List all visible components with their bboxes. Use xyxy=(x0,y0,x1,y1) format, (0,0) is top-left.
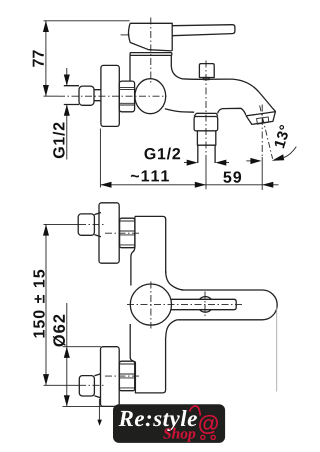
diverter axis (dash-dot) xyxy=(205,61,207,161)
dim line 062 xyxy=(66,303,68,406)
ext line top of handle xyxy=(44,20,130,22)
arrow 150 top xyxy=(43,224,49,235)
top union axis tap side (dash-dot) xyxy=(105,232,139,234)
body to spout outline xyxy=(171,55,275,111)
arrow 062 bottom xyxy=(64,395,70,406)
projection line spout end xyxy=(276,308,278,392)
spout end face xyxy=(246,112,276,116)
ext line 59 right xyxy=(261,105,263,158)
junction curve lower xyxy=(166,320,177,337)
body upper section xyxy=(135,216,166,273)
shower outlet stub G1/2 xyxy=(198,145,215,163)
diverter axis front (dash-dot) xyxy=(204,292,206,318)
ext line flange plane xyxy=(99,129,101,188)
eccentric union body xyxy=(79,86,94,105)
bottom cap flare xyxy=(94,374,101,398)
diverter knob xyxy=(199,64,214,78)
arrow G1/2 left down xyxy=(64,75,70,86)
top union axis wall side xyxy=(44,223,106,225)
spout capsule front xyxy=(177,290,277,320)
mounting hex nut xyxy=(119,81,134,112)
top mounting nut xyxy=(120,218,135,248)
arrow 13deg at stream xyxy=(272,154,284,161)
ball axis vertical (dash-dot) xyxy=(150,282,152,329)
logo text Shop xyxy=(163,428,195,442)
main dim line ~111 / 59 xyxy=(100,184,278,186)
bottom flange escutcheon xyxy=(101,347,120,407)
logo at-cart xyxy=(199,415,218,434)
water stream line 13 deg (dash-dot) xyxy=(260,106,273,159)
cartridge axis (dash-dot) xyxy=(150,18,152,86)
junction curve upper xyxy=(166,271,184,290)
arrow G1/2 middle left xyxy=(187,160,198,166)
spout underside right xyxy=(218,108,246,115)
leader G1/2 middle xyxy=(184,162,229,164)
cart wheels xyxy=(201,435,205,439)
centerline wall union (dash-dot) xyxy=(44,95,167,97)
shower outlet thread xyxy=(197,131,215,145)
projection line below flange xyxy=(98,399,100,425)
arrow G1/2 left up xyxy=(64,105,70,116)
lever bar front xyxy=(171,299,237,309)
arrow 77 bottom xyxy=(43,85,49,96)
union neck xyxy=(94,90,101,101)
top flange escutcheon xyxy=(99,203,119,263)
label G1/2 middle xyxy=(145,148,181,160)
bottom union axis wall side xyxy=(44,384,106,386)
ball body (side view) xyxy=(135,79,166,114)
ext line flange top xyxy=(63,346,101,348)
lever handle bar xyxy=(172,25,235,36)
dim line G1/2 left xyxy=(66,68,68,160)
shower outlet hex xyxy=(194,117,218,131)
arrow ~111 right xyxy=(195,182,206,188)
aerator insert xyxy=(257,117,269,124)
arrow 59 right xyxy=(262,182,273,188)
shower outlet flare xyxy=(194,113,218,116)
logo swoosh xyxy=(190,406,201,416)
label G1/2 left xyxy=(53,123,65,159)
handle cap xyxy=(128,23,172,51)
arrow G1/2 middle right xyxy=(215,160,226,166)
logo box xyxy=(113,404,225,443)
diverter knob front xyxy=(200,297,212,313)
cap joint tick xyxy=(121,34,130,36)
body lower section xyxy=(130,324,165,393)
valve body left edge xyxy=(129,55,131,81)
spout underside left xyxy=(165,109,194,112)
arrow 150 bottom xyxy=(43,374,49,385)
top cap flare xyxy=(94,213,101,237)
label 77 xyxy=(33,50,44,66)
bottom hex cap xyxy=(79,376,94,396)
logo text Re:style xyxy=(119,410,197,431)
aerator block xyxy=(246,112,276,125)
label 062 xyxy=(53,315,66,347)
wall flange escutcheon xyxy=(101,65,119,126)
arrow 13deg at vertical xyxy=(250,158,261,164)
small arrow below flange xyxy=(97,420,102,426)
arrow ~111 left xyxy=(100,182,111,188)
wall pipe stub G1/2 xyxy=(64,86,79,105)
valve body collar xyxy=(130,53,172,56)
bottom mounting nut xyxy=(119,361,134,391)
bottom union axis tap side (dash-dot) xyxy=(105,375,139,377)
dim line 77 xyxy=(45,21,47,96)
top hex cap xyxy=(78,214,94,235)
arrow 062 top xyxy=(64,347,70,358)
label ~111 xyxy=(131,170,169,181)
dim line 150+-15 xyxy=(45,224,47,385)
arrow 77 top xyxy=(43,21,49,32)
label 150 +- 15 xyxy=(33,270,44,338)
arc 13 deg xyxy=(284,147,297,158)
ball body front xyxy=(130,284,171,325)
ext line flange bottom xyxy=(63,405,103,407)
label 59 xyxy=(223,171,241,182)
label 13deg xyxy=(274,124,291,148)
main axis horizontal (dash-dot) xyxy=(127,304,243,306)
